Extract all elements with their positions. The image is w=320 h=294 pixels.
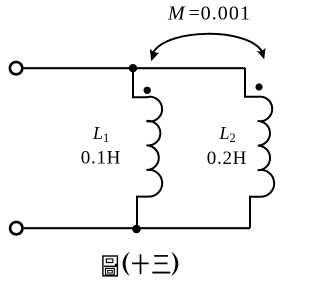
caption glyph 十 (drawn)	[132, 254, 149, 274]
svg-text:2: 2	[230, 131, 236, 145]
terminal T1 (top-left open circle)	[10, 62, 22, 74]
arrowhead right	[257, 48, 266, 60]
caption paren (	[123, 252, 129, 275]
svg-text:1: 1	[103, 131, 109, 145]
svg-text:0.001: 0.001	[201, 2, 252, 24]
caption glyph 圖 (drawn)	[103, 256, 118, 276]
mutual coupling arrow (curved double-headed)	[154, 34, 262, 52]
wire top (T1 to L2 corner)	[24, 67, 245, 69]
svg-text:0.2H: 0.2H	[207, 148, 247, 169]
arrowhead left	[150, 49, 160, 62]
node A (top junction dot)	[129, 64, 137, 72]
terminal T2 (bottom-left open circle)	[10, 222, 22, 234]
caption glyph 三 (drawn)	[152, 256, 170, 273]
inductor L1 (coil)	[133, 68, 162, 228]
svg-text:0.1H: 0.1H	[81, 148, 121, 169]
svg-text:L: L	[219, 123, 230, 143]
svg-text:L: L	[92, 123, 103, 143]
svg-text:M: M	[167, 2, 186, 24]
polarity dot L1	[144, 87, 151, 94]
svg-text:=: =	[189, 2, 200, 24]
polarity dot L2	[255, 83, 262, 90]
node B (bottom junction dot)	[132, 225, 141, 234]
caption paren )	[172, 252, 178, 275]
wire bottom (T2 to L2 corner)	[24, 227, 250, 229]
inductor L2 (coil)	[245, 68, 274, 228]
